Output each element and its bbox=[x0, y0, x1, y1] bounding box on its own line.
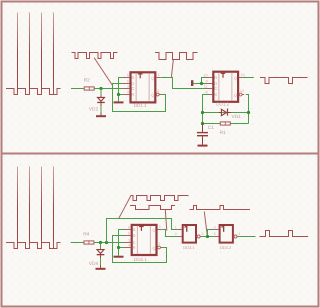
wire: DD1.2 Qbar to timing network right rail bbox=[246, 95, 249, 124]
wire: DD1.1 Q output to DD1.2 clock bbox=[161, 78, 209, 89]
node: clock bus junction bbox=[105, 241, 108, 244]
svg-text:12: 12 bbox=[240, 89, 244, 93]
svg-text:Q: Q bbox=[152, 228, 155, 233]
svg-text:1: 1 bbox=[159, 225, 161, 229]
svg-text:DD1.2: DD1.2 bbox=[216, 102, 229, 107]
logic gate DD3.1 bbox=[183, 225, 196, 243]
ground symbol below C1 bbox=[198, 145, 208, 147]
flip-flop DD2.1 bbox=[132, 225, 157, 255]
resistor R1 bbox=[220, 122, 230, 125]
waveform annotation: output pulses top right bbox=[260, 78, 308, 84]
svg-text:DD3.1: DD3.1 bbox=[183, 245, 195, 250]
diode VD2 (clamp to ground) bbox=[100, 89, 102, 96]
svg-text:5: 5 bbox=[128, 231, 130, 235]
node: R4/VD4 junction bbox=[99, 241, 102, 244]
wire: DD2.1 S and R pins to ground bbox=[119, 230, 125, 256]
wire: R1 row bbox=[203, 123, 249, 125]
wire: DD2.1 Q output to DD3.1 input 2 bbox=[162, 230, 178, 237]
waveform annotation: divided square wave above DD1.2 bbox=[155, 53, 198, 60]
waveform annotation: DD3.1 output pulses bbox=[190, 206, 251, 210]
node: DD2.1 R pin / ground bbox=[117, 246, 120, 249]
svg-text:R: R bbox=[214, 75, 217, 80]
svg-text:C1: C1 bbox=[208, 125, 214, 131]
svg-text:6: 6 bbox=[127, 73, 129, 77]
input spike waveform (bottom panel) bbox=[6, 167, 61, 249]
node: DD1.1 R pin / ground bbox=[117, 93, 120, 96]
leader line from square wave annotation to Q wire bbox=[171, 60, 173, 77]
svg-text:VD1: VD1 bbox=[232, 114, 242, 120]
capacitor C1 bbox=[202, 124, 204, 132]
svg-text:5: 5 bbox=[214, 225, 216, 229]
svg-text:13: 13 bbox=[241, 73, 245, 77]
waveform annotation: clock pulses (wave A) bbox=[131, 196, 189, 201]
svg-text:S: S bbox=[214, 92, 217, 97]
svg-text:VD4: VD4 bbox=[89, 261, 99, 267]
leader line from pulse annotation to R2 junction wire bbox=[94, 58, 113, 86]
node: DD1.2 input junction bbox=[200, 82, 203, 85]
wire: DD2.1 Qbar feedback loop to D input bbox=[113, 236, 167, 263]
logic gate DD3.2 bbox=[220, 225, 233, 243]
wire: terminal bar to DD1.2 S and D pins bbox=[193, 78, 208, 84]
input spike waveform (top panel) bbox=[6, 13, 61, 95]
svg-text:VD2: VD2 bbox=[89, 107, 99, 113]
svg-text:R: R bbox=[133, 245, 136, 250]
svg-text:Q: Q bbox=[234, 76, 237, 81]
waveform annotation: divided wave B bbox=[130, 206, 175, 210]
svg-text:D: D bbox=[133, 233, 136, 238]
svg-text:5: 5 bbox=[127, 79, 129, 83]
flip-flop DD1.2 bbox=[213, 72, 238, 102]
svg-text:R: R bbox=[131, 92, 134, 97]
svg-text:2: 2 bbox=[157, 89, 159, 93]
svg-text:Q: Q bbox=[234, 93, 237, 98]
svg-text:DD2.1: DD2.1 bbox=[134, 257, 147, 262]
svg-text:DD3.2: DD3.2 bbox=[220, 245, 232, 250]
wire: DD1.2 R pin to timing network left rail bbox=[203, 95, 209, 124]
leader line from wave A to clock bus bbox=[119, 196, 131, 218]
wire: DD3.1 output to DD3.2 inputs bbox=[200, 230, 218, 237]
svg-text:1: 1 bbox=[175, 225, 177, 229]
wire: VD1 row bbox=[203, 112, 249, 114]
svg-text:Q: Q bbox=[151, 93, 154, 98]
svg-text:3: 3 bbox=[128, 238, 130, 242]
wire: R4 to DD2.1 clock pin C bbox=[94, 242, 125, 244]
svg-text:4: 4 bbox=[127, 90, 129, 94]
waveform annotation: clamped pulses above R2 bbox=[72, 53, 118, 59]
wire: clock bus riser to DD3.1 input 1 bbox=[107, 219, 178, 243]
svg-text:1: 1 bbox=[158, 73, 160, 77]
flip-flop DD1.1 bbox=[131, 72, 156, 102]
svg-text:4: 4 bbox=[238, 232, 240, 236]
panel divider bbox=[1, 153, 319, 155]
wire: DD1.1 S and R pins to ground bbox=[119, 78, 124, 102]
node: gate junction bbox=[206, 235, 209, 238]
svg-text:9: 9 bbox=[206, 79, 208, 83]
ground symbol below DD1.1 bbox=[114, 101, 124, 103]
resistor R4 bbox=[84, 241, 94, 244]
leader line from wave B to DD2.1 Q wire bbox=[165, 210, 167, 231]
wire: DD3.2 output bbox=[237, 236, 255, 238]
svg-text:R2: R2 bbox=[84, 78, 90, 84]
wire: DD1.1 Qbar feedback loop to D input bbox=[113, 84, 166, 112]
svg-text:6: 6 bbox=[214, 232, 216, 236]
svg-text:3: 3 bbox=[127, 84, 129, 88]
svg-text:R1: R1 bbox=[220, 130, 226, 136]
wire: DD1.2 Q output bbox=[244, 77, 254, 79]
svg-text:10: 10 bbox=[203, 73, 207, 77]
ground symbol below DD2.1 bbox=[114, 256, 124, 258]
svg-text:4: 4 bbox=[128, 243, 130, 247]
leader line from DD3.1 pulses to gate junction bbox=[204, 212, 207, 236]
svg-text:Q: Q bbox=[152, 246, 155, 251]
svg-text:C: C bbox=[131, 86, 134, 91]
svg-text:Q: Q bbox=[151, 76, 154, 81]
waveform annotation: final output pulses bbox=[260, 231, 309, 237]
svg-text:8: 8 bbox=[206, 90, 208, 94]
diode VD4 (clamp to ground) bbox=[100, 243, 102, 250]
node: left rail / R1 / C1 bbox=[201, 122, 204, 125]
resistor R2 bbox=[84, 87, 94, 90]
svg-text:2: 2 bbox=[158, 242, 160, 246]
svg-text:6: 6 bbox=[128, 225, 130, 229]
svg-text:2: 2 bbox=[175, 232, 177, 236]
svg-text:R4: R4 bbox=[83, 232, 89, 238]
wire: R2 to DD1.1 clock pin C bbox=[94, 88, 124, 90]
node: right rail / VD1 bbox=[247, 111, 250, 114]
node: left rail / VD1 bbox=[201, 111, 204, 114]
svg-text:3: 3 bbox=[202, 232, 204, 236]
wire: input to R2 bbox=[71, 88, 84, 90]
svg-text:C: C bbox=[214, 86, 217, 91]
svg-text:11: 11 bbox=[204, 84, 208, 88]
svg-text:S: S bbox=[133, 227, 136, 232]
svg-text:S: S bbox=[131, 75, 134, 80]
diode VD1 bbox=[219, 112, 222, 114]
wire: input to R4 bbox=[71, 242, 84, 244]
terminal bar (supply tap) at DD1.2 inputs bbox=[191, 80, 193, 86]
node: R2/VD2 junction bbox=[99, 87, 102, 90]
svg-text:DD1.1: DD1.1 bbox=[134, 103, 147, 108]
